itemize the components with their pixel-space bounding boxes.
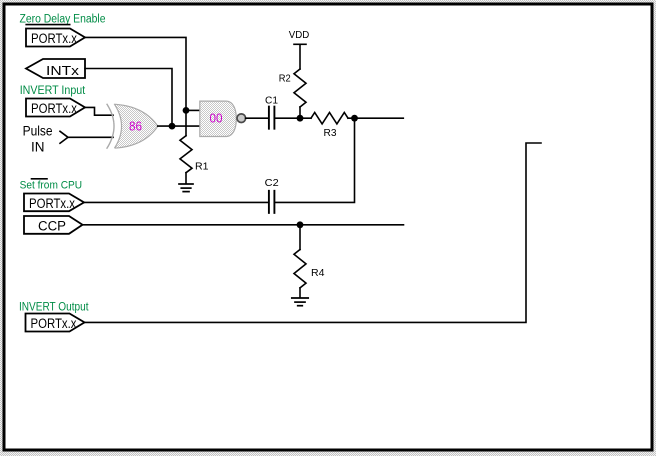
wire C1 to R3: [275, 117, 311, 119]
input flag INTx: [26, 59, 85, 78]
svg-text:Zero Delay Enable: Zero Delay Enable: [20, 13, 106, 25]
wire INTx to XOR output node: [85, 69, 172, 127]
input flag PORTx.x (set from CPU): [24, 194, 84, 212]
wire C2 to vertical riser: [275, 118, 354, 202]
xor gate U1 (86) input arc: [107, 104, 114, 148]
input flag CCP: [24, 216, 83, 234]
wire XOR1 output to NAND1: [158, 125, 200, 127]
svg-text:R3: R3: [324, 127, 337, 139]
ground under R1: [185, 173, 187, 184]
svg-text:R4: R4: [311, 267, 325, 279]
resistor R3: [311, 113, 348, 124]
input flag PORTx.x (zero delay enable): [26, 29, 85, 47]
ground under R4: [299, 288, 301, 298]
svg-text:IN: IN: [31, 140, 45, 155]
bubble on U2 output: [237, 114, 246, 123]
node junction PORTx.x#1 / NAND1 top input: [183, 107, 190, 114]
wire PORTx.x#4 to XOR2 bottom input: [85, 143, 542, 322]
svg-text:00: 00: [210, 111, 223, 125]
node junction CCP/R4: [297, 221, 304, 228]
wire NAND1 output to C1: [246, 117, 268, 119]
svg-text:Set from CPU: Set from CPU: [20, 180, 83, 192]
svg-text:C1: C1: [265, 94, 278, 106]
wire R3 to FF Set input: [348, 117, 403, 119]
xor gate U1 (86) body: [115, 104, 158, 148]
wire VDD to R2: [299, 44, 301, 69]
wire PORTx.x#3 to C2: [84, 201, 268, 203]
capacitor C2: [268, 191, 270, 213]
svg-text:VDD: VDD: [289, 29, 310, 41]
svg-text:PORTx.x: PORTx.x: [29, 196, 75, 211]
nand gate U2 (00) body: [200, 101, 237, 136]
svg-text:PORTx.x: PORTx.x: [31, 31, 77, 46]
node junction R2/C1: [297, 115, 304, 122]
svg-text:INVERT Output: INVERT Output: [19, 301, 89, 313]
annotation underline under Zero Delay: [26, 24, 69, 26]
wire PORTx.x#2 to XOR top input: [85, 107, 113, 115]
wire PORTx.x#1 to NAND input / R1: [85, 37, 186, 135]
wire junction to R4: [299, 225, 301, 250]
svg-text:R2: R2: [279, 73, 291, 85]
svg-text:Pulse: Pulse: [23, 124, 53, 139]
svg-text:R1: R1: [195, 161, 209, 173]
svg-text:86: 86: [129, 119, 142, 133]
svg-text:INTx: INTx: [46, 63, 80, 78]
wire CCP to Reset input: [83, 224, 404, 226]
node junction INTx/XOR output: [169, 123, 176, 130]
svg-text:PORTx.x: PORTx.x: [31, 101, 77, 116]
svg-text:C2: C2: [265, 177, 279, 189]
arrow Pulse IN: [60, 131, 68, 143]
resistor R1: [180, 136, 192, 173]
annotation overline on Set from CPU: [32, 178, 48, 180]
input flag PORTx.x (invert input): [26, 99, 85, 117]
resistor R2: [294, 69, 306, 107]
capacitor C1: [268, 107, 270, 129]
wire NAND1 top input: [186, 109, 200, 111]
svg-text:PORTx.x: PORTx.x: [31, 316, 77, 331]
wire Pulse IN to XOR bottom input: [68, 136, 113, 138]
node junction R3/C2 branch: [351, 115, 358, 122]
svg-text:INVERT Input: INVERT Input: [20, 85, 86, 97]
wire R2 to junction: [299, 107, 301, 118]
input flag PORTx.x (invert output): [26, 314, 85, 332]
svg-text:CCP: CCP: [38, 219, 66, 234]
resistor R4: [294, 250, 306, 288]
